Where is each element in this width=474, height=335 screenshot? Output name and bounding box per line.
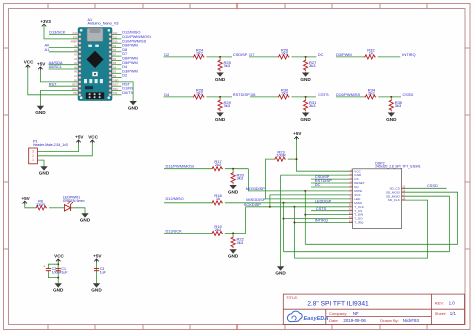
- junction C2 top: [57, 263, 59, 265]
- wire D3/PWM stub: [112, 72, 122, 74]
- svg-text:Company:: Company:: [329, 311, 347, 316]
- resistor R20: [231, 172, 245, 184]
- svg-text:330R: 330R: [36, 203, 45, 207]
- svg-text:CSTS: CSTS: [316, 206, 327, 211]
- wire VCC rail: [57, 262, 59, 283]
- power +5V (C3): [93, 254, 102, 263]
- capacitor C3: [94, 267, 107, 274]
- svg-text:Header-Male-2.54_1x3: Header-Male-2.54_1x3: [33, 143, 68, 147]
- LED LEDPWR1: [64, 201, 73, 211]
- svg-text:REV:: REV:: [435, 301, 444, 306]
- svg-text:240x320_2.8_SPI_TFT_ILI9341: 240x320_2.8_SPI_TFT_ILI9341: [375, 164, 421, 168]
- svg-text:3k3: 3k3: [395, 103, 402, 108]
- svg-text:EasyEDA: EasyEDA: [304, 316, 329, 322]
- svg-text:Drawn By:: Drawn By:: [380, 318, 398, 323]
- svg-text:A1: A1: [45, 47, 50, 52]
- A1 reference designator: [88, 18, 119, 26]
- junction R34/R35: [390, 96, 392, 98]
- wire CSTS stub: [311, 210, 353, 212]
- svg-text:MOSIDISP: MOSIDISP: [246, 186, 265, 191]
- wire to C2 top: [48, 264, 58, 268]
- svg-text:CSSD: CSSD: [403, 92, 414, 97]
- wire R23 to LED pin: [266, 159, 353, 199]
- svg-text:A5/SCL: A5/SCL: [49, 64, 63, 69]
- wire R17 to corner: [225, 168, 249, 170]
- wire VCC to VIN: [28, 68, 78, 95]
- wire R34 to CSSD: [378, 96, 401, 98]
- wire R32 to INTIRQ: [378, 56, 401, 58]
- wire to R29: [219, 97, 221, 100]
- svg-text:5V: 5V: [74, 79, 77, 82]
- ground (R29): [215, 112, 226, 122]
- svg-text:3k3: 3k3: [224, 63, 231, 68]
- svg-text:1uF: 1uF: [61, 270, 68, 274]
- svg-text:D2: D2: [122, 73, 127, 78]
- svg-text:D10: D10: [113, 41, 118, 44]
- wire D7 stub: [112, 55, 122, 57]
- DSP2 reference designator: [375, 161, 421, 168]
- resistor R34: [365, 87, 377, 99]
- Arduino Nano module A1: [78, 28, 112, 101]
- resistor R26: [278, 47, 290, 59]
- svg-text:RSTDISP: RSTDISP: [233, 92, 250, 97]
- ground (C3): [91, 283, 102, 293]
- svg-text:100R: 100R: [276, 153, 286, 158]
- svg-text:GND: GND: [215, 117, 226, 122]
- svg-text:3k3: 3k3: [237, 240, 244, 245]
- svg-text:RST: RST: [72, 84, 77, 87]
- junction MISO/SD_MISO: [283, 202, 285, 204]
- power +5V (R23): [293, 131, 302, 140]
- wire D5/PWM stub: [112, 64, 122, 66]
- LEDPWR1 labels: [63, 196, 85, 203]
- wire D6 to R30: [250, 96, 278, 98]
- svg-text:D12: D12: [113, 32, 118, 35]
- svg-text:GND: GND: [113, 79, 119, 82]
- wire A1 stub: [49, 51, 78, 53]
- svg-text:3k3: 3k3: [309, 63, 316, 68]
- wire C2 bottom: [48, 271, 58, 278]
- wire A5/SCL stub: [49, 68, 78, 70]
- svg-text:1/1: 1/1: [450, 311, 457, 316]
- svg-text:Date:: Date:: [329, 318, 339, 323]
- svg-text:D11/PWM/MOSI: D11/PWM/MOSI: [166, 164, 194, 169]
- wire to R20: [232, 169, 234, 172]
- resistor R29: [218, 99, 232, 111]
- svg-text:DC: DC: [318, 52, 324, 57]
- wire R23 to +5V rail: [288, 158, 297, 160]
- wire to R25: [219, 57, 221, 60]
- svg-text:+3V3: +3V3: [40, 19, 51, 24]
- wire to R27: [305, 57, 307, 60]
- wire D2 to R24: [164, 56, 193, 58]
- svg-text:D0/TX: D0/TX: [122, 90, 133, 95]
- svg-text:CSSD: CSSD: [427, 183, 438, 188]
- wire D8 stub: [112, 51, 122, 53]
- wire R24 to CSDISP: [206, 56, 232, 58]
- junction INTIRQ: [293, 222, 295, 224]
- svg-text:GND: GND: [386, 117, 397, 122]
- svg-text:+5V: +5V: [293, 131, 302, 136]
- wire SD_CLK vertical: [293, 207, 295, 258]
- svg-text:VCC: VCC: [88, 135, 98, 140]
- resistor R19: [211, 224, 223, 236]
- ground (C1/C2): [53, 283, 64, 293]
- power VCC (A1): [24, 60, 34, 69]
- wire SCK net row: [246, 206, 353, 208]
- junction T_DIN tap: [304, 214, 306, 216]
- P1 reference designator: [33, 140, 68, 148]
- svg-text:+5V: +5V: [75, 135, 84, 140]
- wire D12/MISO stub: [112, 34, 122, 36]
- svg-text:D2: D2: [164, 52, 169, 57]
- svg-text:3k3: 3k3: [237, 176, 244, 181]
- svg-text:D6: D6: [251, 92, 256, 97]
- ground (R22): [228, 249, 239, 259]
- wire D7 to R26: [249, 56, 278, 58]
- svg-text:2k2: 2k2: [215, 162, 222, 167]
- wire SD_CS stub: [402, 187, 447, 189]
- resistor R35: [389, 99, 403, 111]
- wire LED1 to GND: [71, 208, 85, 213]
- svg-text:1uF: 1uF: [100, 270, 107, 274]
- svg-text:1k: 1k: [369, 50, 373, 55]
- title block: [283, 294, 464, 324]
- wire D11/PWM/MOSI stub: [112, 38, 122, 40]
- junction SD_CLK: [293, 206, 295, 208]
- svg-text:GND: GND: [228, 189, 239, 194]
- capacitor C1: [56, 267, 69, 274]
- wire DC stub: [311, 186, 353, 188]
- svg-text:D11: D11: [113, 36, 118, 39]
- resistor R27: [304, 59, 318, 71]
- capacitor C2: [43, 264, 62, 274]
- wire A4/SDA stub: [49, 64, 78, 66]
- junction R19/R22: [232, 232, 234, 234]
- wire +5V to display VCC: [297, 140, 353, 172]
- power +5V (A1): [37, 62, 46, 71]
- svg-text:INTIRQ: INTIRQ: [402, 52, 415, 57]
- wire MISO vertical: [283, 203, 285, 252]
- svg-text:2019-09-06: 2019-09-06: [343, 318, 366, 323]
- svg-text:CSTS: CSTS: [318, 92, 329, 97]
- svg-text:GND: GND: [80, 218, 91, 223]
- junction R30/R31: [305, 96, 307, 98]
- power +5V (LED): [21, 196, 30, 205]
- svg-text:2k2: 2k2: [196, 90, 203, 95]
- wire R26 to DC: [291, 56, 316, 58]
- wire +5V to A1: [40, 70, 78, 82]
- svg-text:2k2: 2k2: [215, 227, 222, 232]
- svg-text:D4: D4: [164, 92, 170, 97]
- resistor R6: [35, 200, 47, 210]
- junction R28/R29: [219, 96, 221, 98]
- junction T_DO tap: [283, 218, 285, 220]
- wire SD_MISO wrap: [284, 196, 450, 252]
- wire T_DIN: [305, 214, 352, 216]
- wire A1 GND right: [112, 82, 133, 101]
- resistor R18: [211, 193, 223, 205]
- wire T_DO: [284, 218, 353, 220]
- svg-text:GND: GND: [35, 110, 46, 115]
- wire SD_MOSI wrap: [305, 192, 457, 244]
- ground (LED): [80, 213, 91, 223]
- display connector DSP2: [349, 168, 406, 229]
- svg-text:D13: D13: [73, 32, 78, 35]
- svg-text:VIN: VIN: [73, 92, 77, 95]
- svg-text:TITLE:: TITLE:: [286, 295, 298, 300]
- wire D13 to R19: [164, 232, 211, 234]
- svg-text:1: 1: [32, 158, 34, 162]
- svg-text:T_IRQ: T_IRQ: [354, 221, 364, 225]
- resistor R23: [274, 150, 286, 162]
- wire RSTDISP stub: [311, 182, 353, 184]
- wire D12 to R18: [164, 202, 211, 204]
- svg-text:D10/PWM/SS: D10/PWM/SS: [336, 92, 360, 97]
- A1 pin names: [71, 32, 119, 95]
- junction R24/R25: [219, 56, 221, 58]
- svg-text:LEDDISP: LEDDISP: [315, 198, 332, 203]
- power VCC (caps): [54, 254, 64, 263]
- wire D0/TX stub: [112, 94, 122, 96]
- wire +5V to C3: [96, 262, 98, 283]
- svg-text:1k: 1k: [216, 196, 220, 201]
- wire A0 stub: [49, 47, 78, 49]
- wire R19 up: [225, 207, 246, 234]
- svg-text:D12/MISO: D12/MISO: [166, 196, 184, 201]
- svg-text:GREEN 5mm: GREEN 5mm: [63, 199, 85, 203]
- svg-text:3k3: 3k3: [224, 103, 231, 108]
- wire D9/PWM stub: [112, 47, 122, 49]
- svg-text:2k2: 2k2: [281, 50, 288, 55]
- svg-text:SCKDISP: SCKDISP: [244, 202, 261, 207]
- wire D13/SCK stub: [49, 34, 78, 36]
- svg-text:NF: NF: [353, 311, 359, 316]
- svg-text:RST: RST: [113, 84, 118, 87]
- wire D10 to R34: [336, 96, 365, 98]
- junction R26/R27: [305, 56, 307, 58]
- wire INTIRQ stub: [294, 222, 352, 224]
- svg-text:+5V: +5V: [21, 196, 30, 201]
- svg-text:+5V: +5V: [93, 254, 102, 259]
- svg-text:GND: GND: [228, 254, 239, 259]
- svg-text:+5V: +5V: [37, 62, 46, 67]
- resistor R28: [193, 87, 205, 99]
- wire P1 pin2 to VCC: [37, 143, 92, 156]
- wire MISO net: [225, 202, 353, 204]
- svg-text:GND: GND: [53, 288, 64, 293]
- ground (display): [275, 266, 286, 276]
- ground (R27): [300, 72, 311, 82]
- wire RST stub left: [49, 85, 78, 87]
- svg-text:D13/SCK: D13/SCK: [166, 228, 183, 233]
- junction R17/R20: [232, 168, 234, 170]
- junction C2 bottom: [57, 277, 59, 279]
- wire D1/RX stub: [112, 90, 122, 92]
- ground (R31): [300, 112, 311, 122]
- wire display GND: [281, 174, 353, 176]
- wire to R22: [232, 233, 234, 236]
- wire D4 to R28: [164, 96, 193, 98]
- svg-text:CSDISP: CSDISP: [233, 52, 248, 57]
- resistor R32: [364, 47, 376, 59]
- wire D4 stub: [112, 68, 122, 70]
- svg-text:VCC: VCC: [54, 254, 64, 259]
- EasyEDA logo: [287, 311, 328, 322]
- svg-text:SD_CLK: SD_CLK: [388, 198, 401, 202]
- connector P1: [29, 148, 38, 164]
- svg-text:GND: GND: [72, 88, 78, 91]
- svg-text:GND: GND: [275, 271, 286, 276]
- svg-text:2.8" SPI TFT ILI9341: 2.8" SPI TFT ILI9341: [307, 300, 369, 307]
- wire P1 pin1 to GND: [37, 160, 44, 166]
- svg-text:D3/PWM: D3/PWM: [336, 52, 352, 57]
- ground (R35): [386, 112, 397, 122]
- svg-text:+: +: [43, 264, 45, 268]
- svg-text:2k2: 2k2: [368, 90, 375, 95]
- junction MOSI/T_DIN: [304, 190, 306, 192]
- resistor R31: [304, 99, 318, 111]
- power +3V3: [40, 19, 51, 26]
- svg-text:Arduino_Nano_V3: Arduino_Nano_V3: [88, 22, 119, 26]
- svg-text:GND: GND: [300, 77, 311, 82]
- svg-text:2k2: 2k2: [196, 50, 203, 55]
- power VCC (P1): [88, 135, 98, 144]
- svg-text:VCC: VCC: [24, 60, 34, 65]
- wire SCK pin branch: [270, 195, 353, 207]
- junction R23/+5V: [296, 158, 298, 160]
- resistor R25: [218, 59, 232, 71]
- wire R30 to CSTS: [291, 96, 316, 98]
- resistor R30: [278, 87, 290, 99]
- wire +5V to R6: [25, 204, 36, 208]
- wire D10/PWM/SS stub: [112, 42, 122, 44]
- ground (R25): [215, 72, 226, 82]
- ground (P1): [39, 166, 50, 176]
- resistor R17: [211, 159, 223, 171]
- resistor R24: [193, 47, 205, 59]
- svg-text:AREF: AREF: [71, 41, 78, 44]
- svg-text:RST: RST: [49, 81, 57, 86]
- wire GND drop: [280, 175, 282, 266]
- wire RST stub: [112, 85, 122, 87]
- svg-text:GND: GND: [215, 77, 226, 82]
- ground (A1 left): [35, 106, 46, 116]
- svg-text:INTIRQ: INTIRQ: [315, 218, 328, 223]
- wire to R35: [390, 97, 392, 100]
- svg-text:D13/SCK: D13/SCK: [49, 30, 66, 35]
- junction SCK branch: [269, 206, 271, 208]
- ground (R20): [228, 185, 239, 195]
- svg-text:TX1: TX1: [113, 92, 118, 95]
- svg-text:GND: GND: [300, 117, 311, 122]
- svg-text:GND: GND: [39, 171, 50, 176]
- wire CSDISP stub: [311, 178, 353, 180]
- wire MOSI net: [248, 169, 352, 191]
- svg-text:GND: GND: [91, 288, 102, 293]
- power +5V (P1): [75, 135, 84, 144]
- wire R6 to LED1: [49, 207, 64, 209]
- wire to R31: [305, 97, 307, 100]
- svg-text:D7: D7: [249, 52, 254, 57]
- resistor R22: [231, 236, 245, 248]
- svg-text:DC: DC: [315, 182, 321, 187]
- wire D6/PWM stub: [112, 59, 122, 61]
- wire SD_CLK wrap: [294, 200, 427, 258]
- svg-text:2k2: 2k2: [281, 90, 288, 95]
- svg-text:RX0: RX0: [113, 88, 118, 91]
- svg-text:3V3: 3V3: [73, 36, 78, 39]
- svg-text:3k3: 3k3: [309, 103, 316, 108]
- wire D3 to R32: [336, 56, 364, 58]
- svg-text:NickF93: NickF93: [403, 318, 420, 323]
- wire P1 pin3 to +5V: [37, 143, 78, 152]
- svg-text:GND: GND: [128, 105, 139, 110]
- wire R28 to RSTDISP: [206, 96, 232, 98]
- wire D2 stub: [112, 77, 122, 79]
- ground (A1 right): [128, 101, 139, 111]
- wire MOSI vertical: [304, 191, 306, 244]
- svg-text:1.0: 1.0: [449, 301, 456, 306]
- wire A1 GND left: [40, 91, 78, 106]
- wire 3V3: [44, 25, 78, 39]
- svg-text:Sheet:: Sheet:: [435, 311, 447, 316]
- wire D11 to R17: [164, 168, 211, 170]
